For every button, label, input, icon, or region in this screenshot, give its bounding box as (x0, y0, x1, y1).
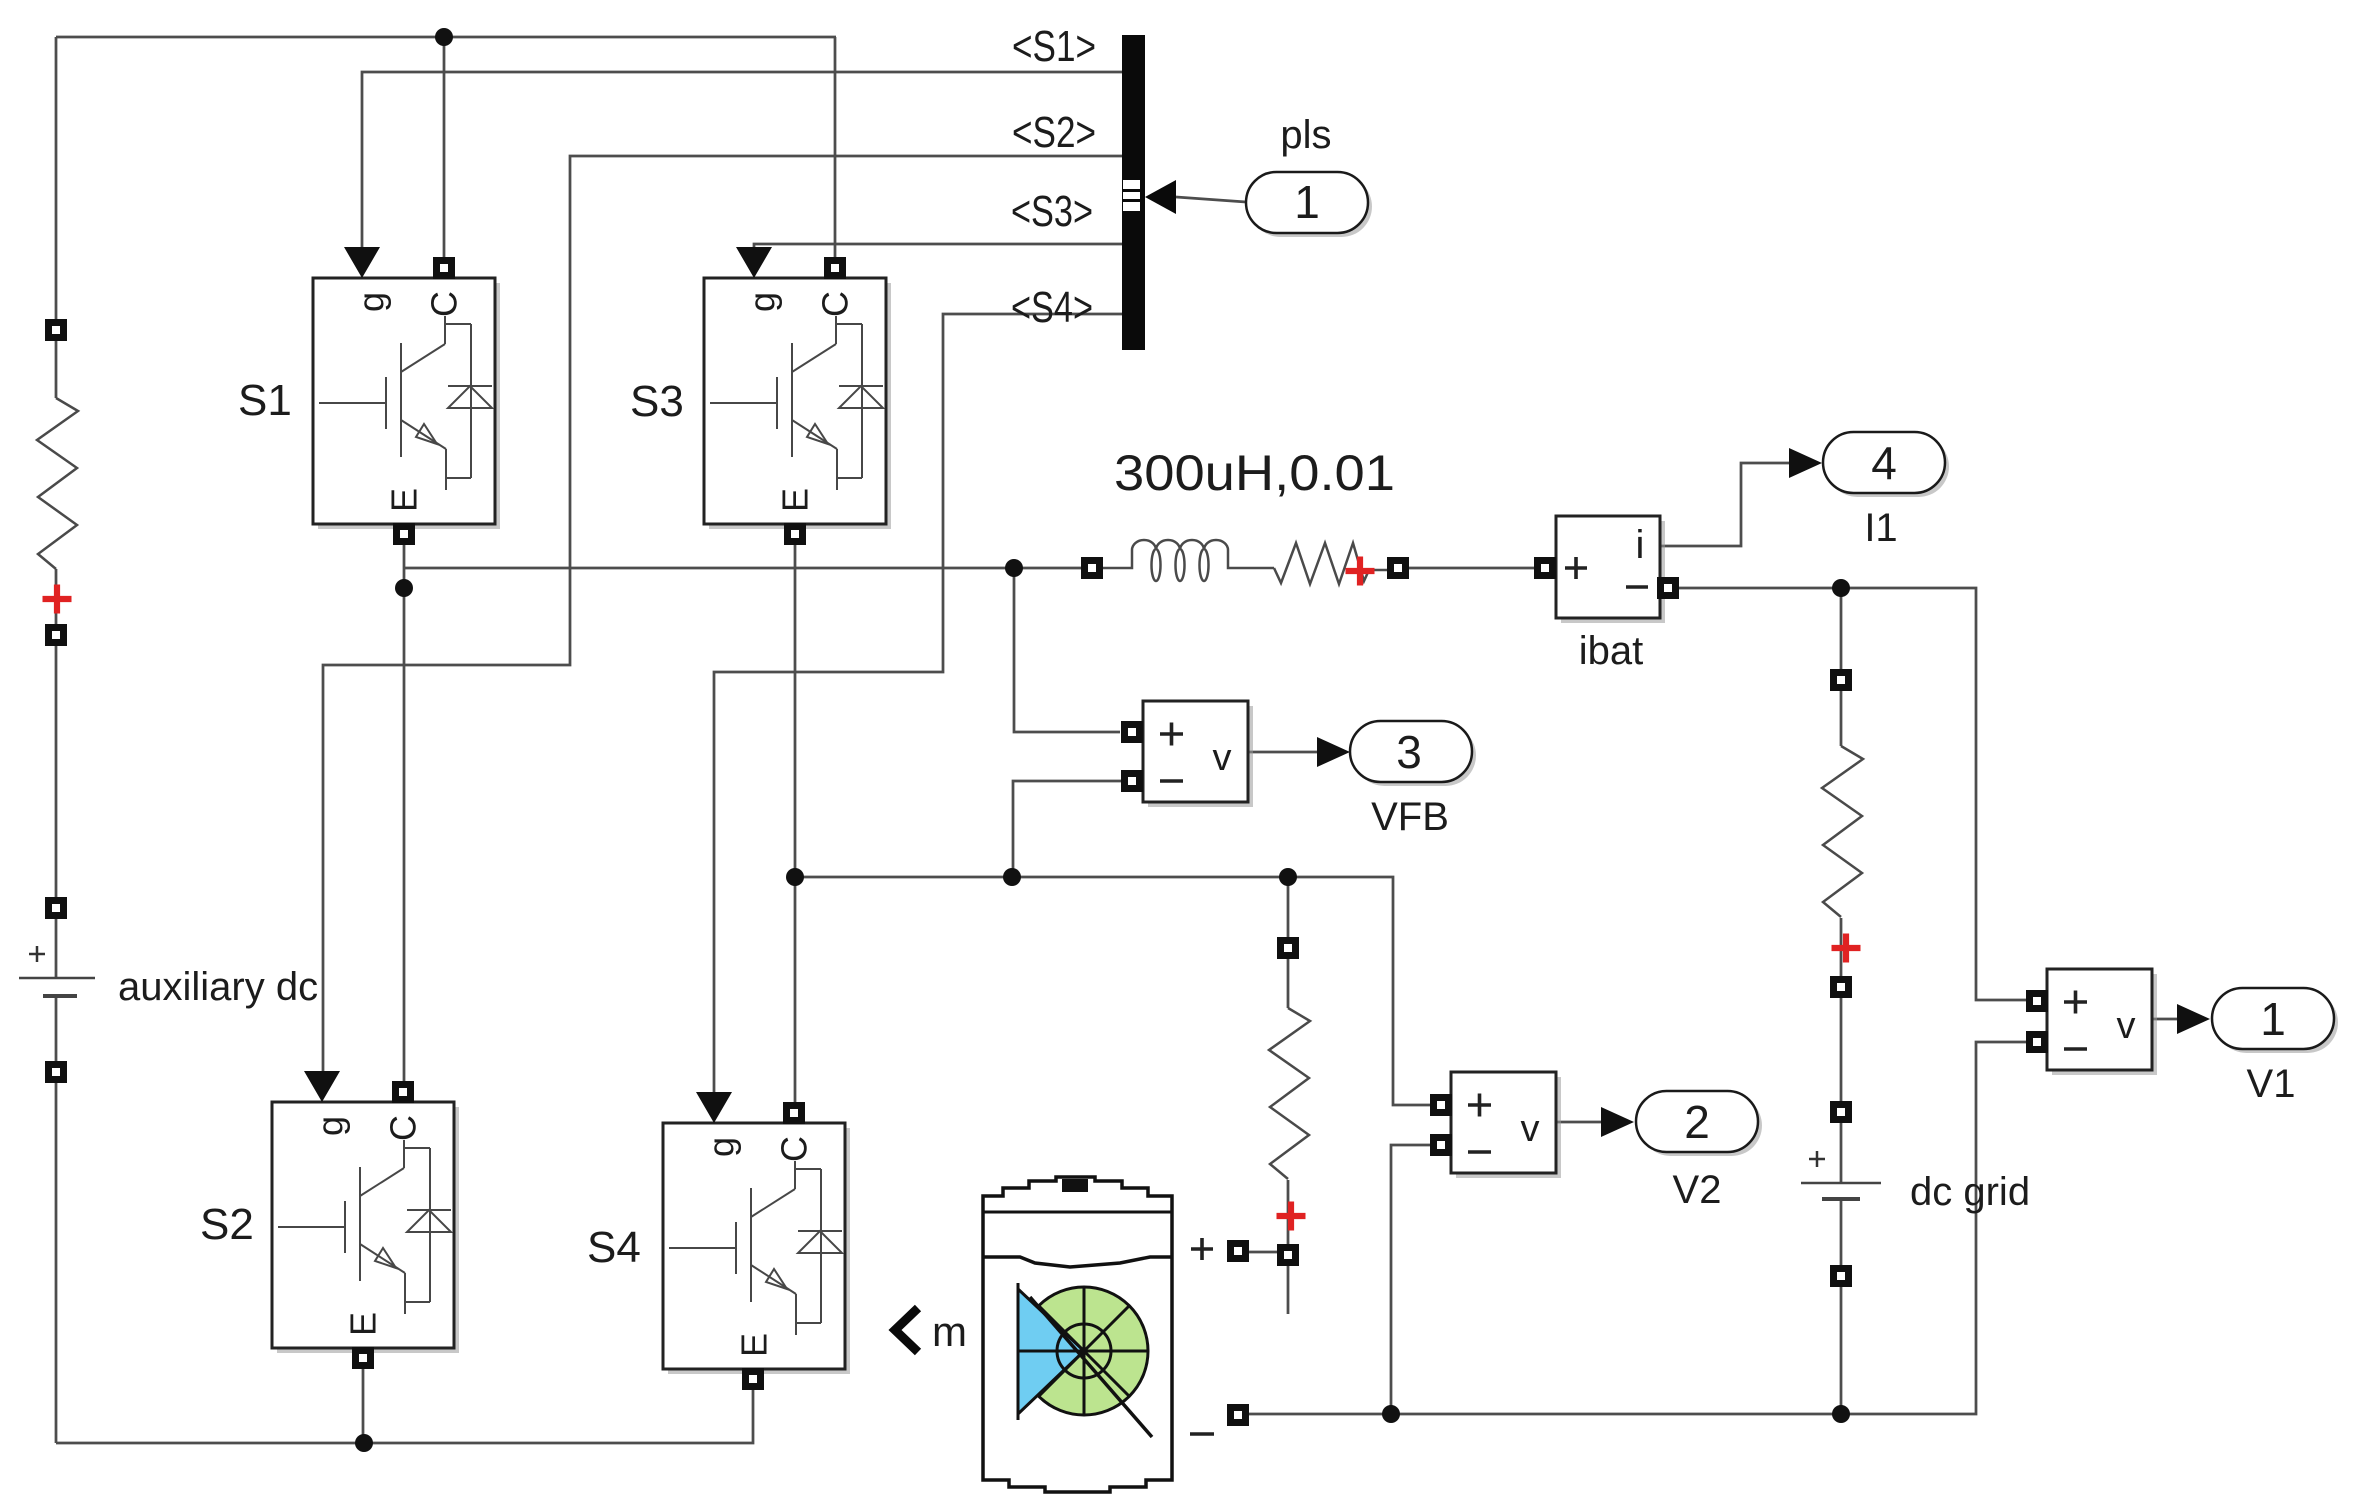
port square: aux source bottom (45, 1061, 67, 1083)
wire: negative bus from S3 emitter node to V2 plus (795, 877, 1430, 1105)
battery plus label (1191, 1238, 1213, 1260)
port square: V2 plus (1430, 1094, 1452, 1116)
wire: bottom left rail aux minus to S4 emitter (56, 1390, 753, 1443)
port square: dc grid source top (1830, 1101, 1852, 1123)
port square: R2 top (1277, 937, 1299, 959)
IGBT S1 (238, 247, 500, 545)
port square: VFB plus (1121, 721, 1143, 743)
wire: bottom negative rail battery to V1 minus (1249, 1042, 2026, 1414)
svg-text:2: 2 (1684, 1096, 1710, 1148)
svg-text:1: 1 (1294, 176, 1320, 228)
svg-text:pls: pls (1280, 113, 1331, 157)
wire: V1 output to port 1 (2150, 1018, 2177, 1021)
svg-text:<S2>: <S2> (1012, 108, 1096, 157)
junction dot: bottom left rail at S2 emitter (355, 1434, 373, 1452)
junction dot: negative bus at R branch (1279, 868, 1297, 886)
port square: battery minus (1227, 1404, 1249, 1426)
wire: top positive rail from aux branch to S3 collector (56, 36, 836, 39)
dc source auxiliary dc plates (19, 946, 318, 1009)
port square: VFB minus (1121, 770, 1143, 792)
wire: R branch from negative bus (1287, 877, 1290, 1314)
svg-text:3: 3 (1396, 726, 1422, 778)
voltage measurement VFB (1143, 701, 1449, 839)
wire: S3 collector drop from top rail (834, 37, 837, 258)
port square: dc grid resistor top (1830, 669, 1852, 691)
svg-text:VFB: VFB (1371, 795, 1449, 839)
wire: V2 output to port 2 (1556, 1121, 1601, 1124)
IGBT S3 (630, 247, 891, 545)
port square: series branch output (1387, 557, 1409, 579)
output port 1 (2177, 988, 2338, 1053)
current measurement ibat (1556, 516, 1665, 673)
svg-text:ibat: ibat (1579, 629, 1644, 673)
wire: inductor-resistor output to ibat plus (1409, 567, 1534, 570)
junction dot: bottom rail at dc grid branch (1832, 1405, 1850, 1423)
wire: S2 emitter drop to bottom rail (362, 1369, 365, 1443)
battery minus label (1190, 1432, 1214, 1436)
svg-text:<S1>: <S1> (1012, 22, 1096, 71)
svg-text:S3: S3 (630, 377, 684, 426)
wire: ibat i output to port 4 (1660, 463, 1789, 546)
red polarity plus R2 branch (1277, 1202, 1306, 1231)
svg-text:V2: V2 (1673, 1168, 1722, 1212)
output port 2 (1601, 1091, 1762, 1156)
wire: demux S4 gate signal (714, 314, 1122, 1092)
port square: V1 minus (2026, 1031, 2048, 1053)
junction dot: node below S1 emitter (395, 579, 413, 597)
wire: V2 minus to bottom negative rail (1391, 1145, 1430, 1414)
svg-text:dc grid: dc grid (1910, 1170, 2030, 1214)
port square: battery plus (1227, 1240, 1249, 1262)
wire: battery plus to R branch bottom (1249, 1251, 1277, 1254)
wire: node B vertical to VFB plus (1014, 568, 1120, 732)
junction dot: negative bus at S3 emitter (786, 868, 804, 886)
svg-text:m: m (932, 1308, 967, 1355)
wire: S3 emitter down to S4 collector (794, 544, 797, 1103)
output port 3 (1317, 721, 1476, 786)
wire: demux S1 gate signal (362, 72, 1122, 247)
wire: dc grid resistor to battery links (1840, 691, 1843, 1414)
junction dot: negative bus at VFB minus (1003, 868, 1021, 886)
svg-text:S1: S1 (238, 376, 292, 425)
voltage measurement V2 (1451, 1072, 1721, 1212)
junction dot: ibat minus / dc grid branch (1832, 579, 1850, 597)
port square: V2 minus (1430, 1134, 1452, 1156)
svg-text:1: 1 (2260, 993, 2286, 1045)
svg-text:auxiliary dc: auxiliary dc (118, 965, 318, 1009)
junction dot: bottom rail at V2 minus (1382, 1405, 1400, 1423)
svg-text:I1: I1 (1864, 506, 1897, 550)
wire: ibat minus to dc grid branch and V1 plus (1679, 588, 2026, 1000)
junction dot: top rail / S1 collector (435, 28, 453, 46)
wire: dc grid branch top drop (1840, 588, 1843, 669)
svg-text:S4: S4 (587, 1223, 641, 1272)
wire: aux source branch segments (55, 37, 58, 1443)
voltage measurement V1 (2047, 969, 2295, 1106)
port square: V1 plus (2026, 990, 2048, 1012)
svg-text:300uH,0.01: 300uH,0.01 (1114, 445, 1395, 501)
red polarity plus aux branch (43, 585, 72, 614)
wire: S1 emitter down to S2 collector (403, 544, 406, 1082)
svg-text:i: i (1636, 523, 1645, 567)
battery m output chevron (895, 1308, 967, 1355)
resistor R2 branch (1269, 1008, 1310, 1179)
port square: aux resistor top (45, 319, 67, 341)
wire: VFB minus down to negative bus (1013, 781, 1121, 877)
svg-text:<S3>: <S3> (1011, 187, 1093, 236)
port square: ibat minus output (1657, 577, 1679, 599)
port square: aux source top (45, 897, 67, 919)
wire: demux S3 gate signal (754, 244, 1122, 247)
svg-text:V1: V1 (2247, 1062, 2296, 1106)
port square: R2 bottom (1277, 1244, 1299, 1266)
resistor R series 0.01 (1274, 543, 1387, 584)
svg-text:S2: S2 (200, 1200, 254, 1249)
wire: pls port to demux input (1176, 197, 1246, 202)
input port 1 pls (1246, 113, 1372, 237)
demux bus selector bar (1122, 35, 1176, 350)
red polarity plus on series branch (1346, 557, 1375, 586)
port square: aux resistor bottom (45, 624, 67, 646)
junction dot: node B inductor input (1005, 559, 1023, 577)
svg-text:4: 4 (1871, 437, 1897, 489)
port square: dc grid resistor bottom (1830, 976, 1852, 998)
dc source dc grid plates (1801, 1151, 2030, 1214)
port square: dc grid source bottom (1830, 1265, 1852, 1287)
wire: demux S2 gate signal (323, 156, 1122, 1071)
wire: S1 collector drop from top rail (443, 37, 446, 258)
port square: ibat plus input (1534, 557, 1556, 579)
wire: midpoint node A to inductor input (404, 567, 1081, 570)
wire: VFB output to port 3 (1247, 751, 1317, 754)
inductor L 300uH (1102, 540, 1274, 581)
resistor R aux branch (37, 398, 78, 569)
output port 4 (1789, 432, 1949, 550)
IGBT S2 (200, 1071, 459, 1369)
battery block icon (983, 1177, 1172, 1492)
port square: inductor input (1081, 557, 1103, 579)
IGBT S4 (587, 1092, 850, 1390)
resistor R dc grid branch (1822, 746, 1863, 917)
svg-text:<S4>: <S4> (1011, 283, 1093, 332)
red polarity plus dc grid branch (1832, 934, 1861, 963)
